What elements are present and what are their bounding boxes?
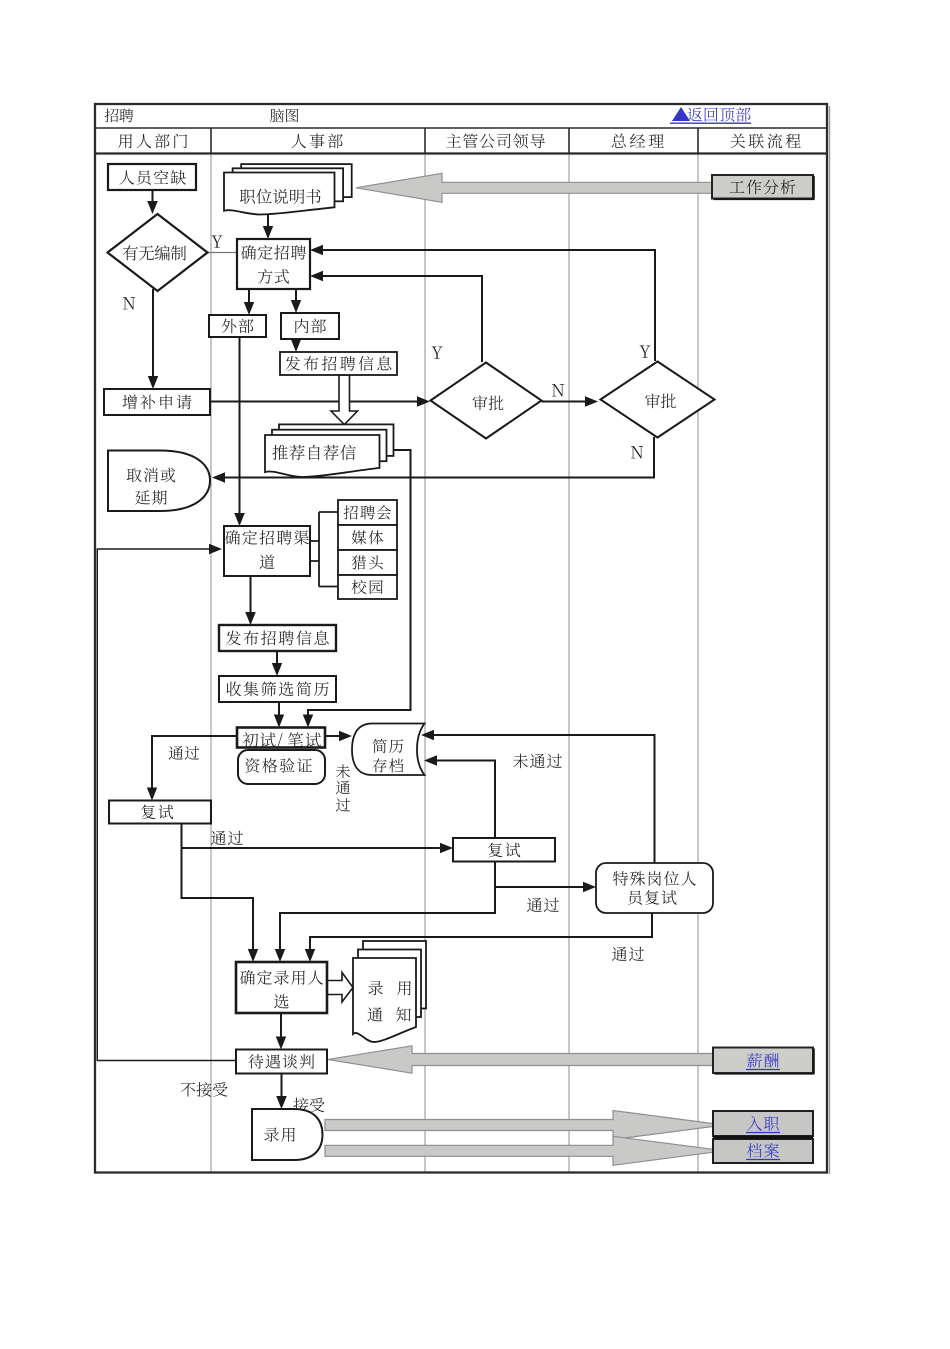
wire 外部 to 确定招聘渠道: [234, 337, 245, 526]
rounded box 特殊岗位人员复试: [596, 863, 713, 913]
wire 增补申请 to 审批1: [210, 396, 430, 407]
title cell: 招聘: [105, 109, 134, 123]
wire 复试 to 确定录用人选: [182, 848, 259, 962]
wire 有无编制 Y to 确定招聘方式: [208, 252, 238, 254]
label Y (有无编制): [212, 236, 223, 248]
hollow arrow 发布招聘信息 to 推荐自荐信: [331, 375, 358, 425]
document 推荐自荐信: [265, 424, 394, 477]
stored data 简历存档: [352, 724, 425, 776]
wire 复试2 通过 to 特殊岗位人员复试: [495, 862, 596, 893]
document 职位说明书: [224, 164, 352, 214]
related process box 入职: [713, 1111, 813, 1136]
gray block arrow from 录用 to 入职: [325, 1111, 724, 1140]
process box 人员空缺: [108, 164, 196, 190]
wire 审批1 Y to 确定招聘方式: [310, 271, 482, 362]
process box 确定录用人选: [236, 962, 327, 1013]
decision diamond 有无编制: [108, 214, 208, 291]
table outer frame: [95, 104, 830, 1174]
channel box 招聘会: [338, 500, 397, 525]
label 通过 (特殊岗位人员复试 to 确定录用人选): [612, 947, 644, 961]
decision diamond 审批 (主管公司领导): [431, 363, 542, 439]
column header: 用人部门: [118, 134, 187, 149]
process box 内部: [281, 313, 339, 339]
process box 复试 (first): [109, 801, 211, 824]
rounded box 资格验证: [238, 750, 325, 784]
wire 待遇谈判 不接受 feedback to 确定招聘渠道: [97, 544, 236, 1061]
divider between 入职 and 档案: [713, 1136, 813, 1139]
label 通过 (复试2 to 特殊岗位人员复试): [527, 898, 559, 912]
wire 复试2 未通过 to 简历存档: [424, 755, 495, 838]
label Y (审批2): [640, 346, 651, 358]
swimlane column divider lines (body, light gray): [211, 154, 698, 1172]
wire 初试/笔试 to 简历存档: [325, 731, 352, 741]
wire 特殊岗位人员复试 通过 to 确定录用人选: [305, 913, 652, 962]
wire 发布招聘信息 to 收集筛选简历: [272, 651, 282, 676]
related process box 工作分析: [712, 175, 814, 200]
wire 复试 通过 to 复试2: [182, 824, 454, 854]
wire 有无编制 N to 增补申请: [148, 289, 158, 389]
process box 确定招聘方式: [237, 239, 310, 289]
wire 审批1 N to 审批2: [542, 396, 599, 407]
channel box 猎头: [338, 550, 397, 575]
wire 确定招聘方式 to 外部: [244, 289, 254, 315]
gray block arrow from 工作分析 to 职位说明书: [356, 173, 713, 202]
column header: 关联流程: [730, 133, 800, 148]
related process box 薪酬: [713, 1048, 814, 1075]
wire 收集筛选简历 to 初试/笔试: [274, 702, 284, 728]
label 通过 (复试 to 复试2): [211, 831, 243, 845]
header row separator line 2: [95, 152, 826, 154]
bracket 确定招聘渠道 to channel list: [310, 512, 338, 587]
label N (审批1): [552, 384, 564, 396]
process box 待遇谈判: [236, 1050, 327, 1074]
process box 确定招聘渠道: [224, 526, 310, 576]
decision diamond 审批 (总经理): [601, 362, 715, 438]
channel box 媒体: [338, 525, 397, 550]
label 未通过 (复试2 to 简历存档): [513, 754, 562, 769]
process box 外部: [209, 315, 266, 337]
label N (有无编制): [123, 297, 135, 309]
back-to-top link: ▲返回顶部: [670, 107, 751, 123]
label 接受: [293, 1098, 324, 1113]
column header: 主管公司领导: [446, 133, 545, 148]
wire 审批2 Y to 确定招聘方式: [310, 245, 655, 361]
label Y (审批1): [432, 347, 443, 359]
label 通过 (初试 to 复试): [169, 746, 199, 760]
process box 发布招聘信息 (second): [219, 625, 336, 651]
wire 确定招聘方式 to 内部: [291, 289, 301, 313]
channel box 校园: [338, 575, 397, 599]
process box 发布招聘信息 (first): [280, 352, 397, 375]
gray block arrow from 录用 to 档案: [325, 1136, 724, 1165]
process box 收集筛选简历: [219, 676, 336, 702]
wire 确定录用人选 to 待遇谈判: [276, 1013, 286, 1050]
wire 待遇谈判 接受 to 录用: [276, 1074, 287, 1110]
terminator 录用: [252, 1109, 323, 1160]
column header: 人事部: [291, 134, 342, 149]
wire 特殊岗位人员复试 未通过 to 简历存档: [421, 730, 655, 863]
related process box 档案: [713, 1139, 813, 1163]
process box 初试/笔试: [237, 728, 325, 749]
process box 复试 (second): [453, 838, 555, 862]
gray block arrow from 薪酬 to 待遇谈判: [328, 1046, 713, 1073]
process box 增补申请: [104, 389, 210, 415]
title cell: 脑图: [270, 109, 298, 123]
wire 内部 to 发布招聘信息: [291, 339, 301, 352]
label 不接受: [181, 1082, 228, 1097]
wire 审批2 N to 取消或延期: [212, 437, 654, 483]
header row separator line 1: [95, 127, 826, 129]
wire 确定招聘渠道 to 发布招聘信息: [245, 576, 256, 625]
column header: 总经理: [612, 134, 664, 148]
wire 复试2 to 确定录用人选: [275, 887, 495, 962]
label N (审批2): [631, 446, 643, 458]
label 未通过 vertical (初试 to 简历存档): [336, 765, 350, 812]
hollow arrow 确定录用人选 to 录用通知: [326, 973, 353, 1003]
header column dividers: [211, 128, 698, 154]
wire 职位说明书 to 确定招聘方式: [263, 214, 273, 239]
terminator 取消或延期: [108, 451, 210, 512]
wire 初试/笔试 通过 to 复试: [147, 736, 237, 801]
document 录用通知: [353, 941, 426, 1042]
wire 推荐自荐信 to 初试/笔试: [303, 450, 411, 728]
wire 人员空缺 to 有无编制: [147, 190, 158, 214]
